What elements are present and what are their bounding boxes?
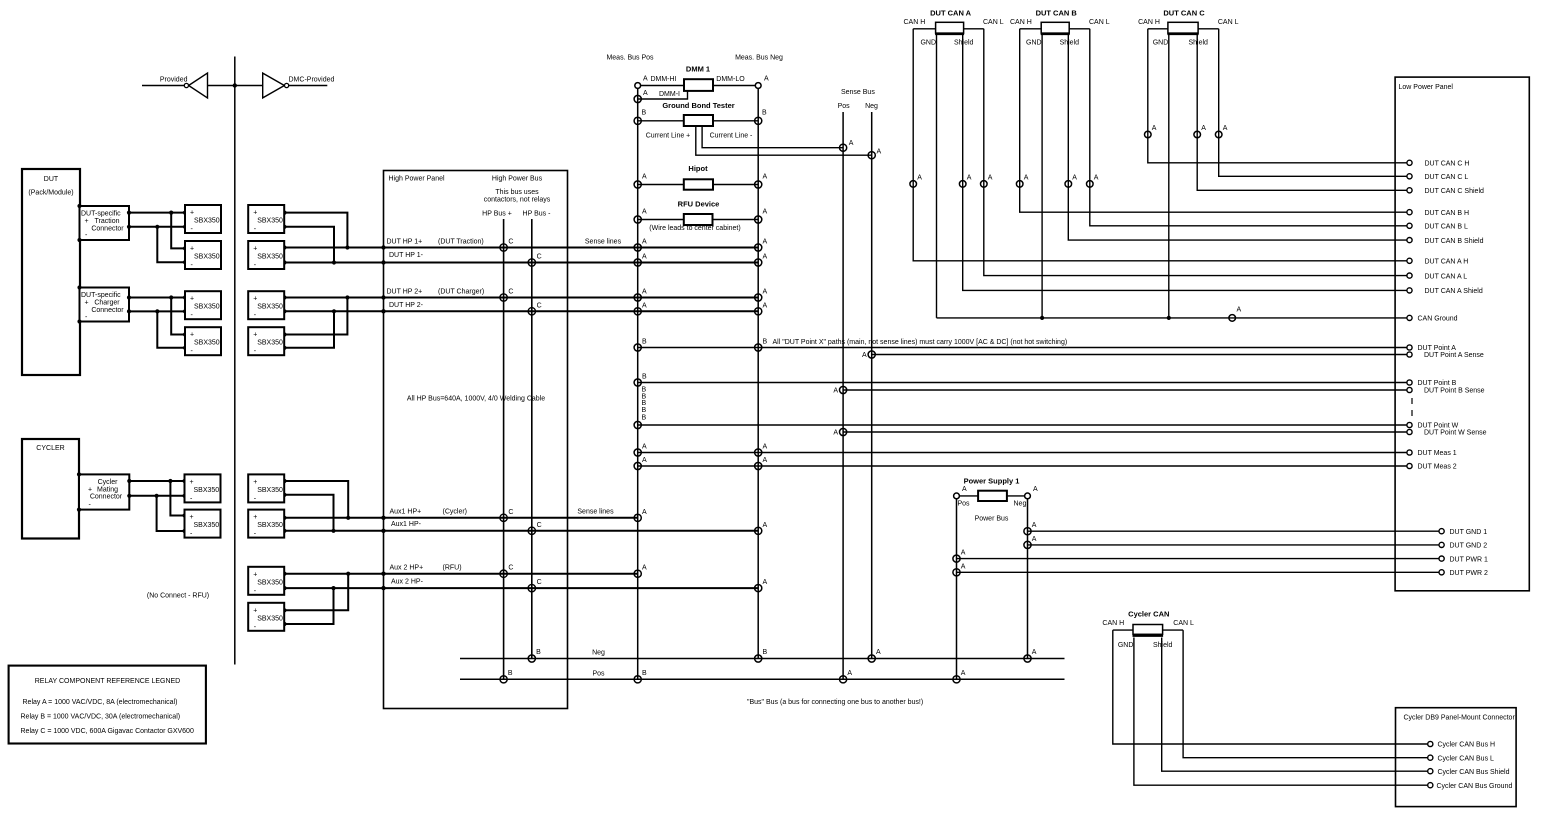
wire DUT CAN C L — [1219, 29, 1410, 177]
svg-text:B: B — [762, 110, 767, 117]
svg-text:A: A — [642, 209, 647, 216]
wire DUT Point W — [638, 424, 1410, 426]
svg-text:DUT Point B: DUT Point B — [1418, 380, 1457, 387]
svg-text:Mating: Mating — [97, 486, 118, 493]
relay on Meas Pos — [634, 259, 641, 266]
junction at High Power Panel edge — [381, 586, 385, 590]
svg-text:C: C — [537, 522, 542, 529]
junction — [127, 295, 131, 299]
svg-text:CAN L: CAN L — [1173, 620, 1194, 627]
svg-text:Meas. Bus Pos: Meas. Bus Pos — [606, 55, 654, 62]
svg-text:A: A — [877, 148, 882, 155]
wire SBX B8+ elbow up to Aux 2 HP+ — [285, 574, 349, 611]
svg-text:(DUT Charger): (DUT Charger) — [438, 289, 484, 296]
svg-text:Provided: Provided — [160, 77, 188, 84]
terminal DUT CAN B Shield — [1407, 238, 1412, 243]
svg-text:A: A — [967, 175, 972, 182]
svg-text:DUT CAN B H: DUT CAN B H — [1425, 210, 1470, 217]
junction — [282, 295, 286, 299]
contactor C — [528, 584, 535, 591]
wire J2+ to SBX A3 — [129, 297, 185, 299]
svg-text:A: A — [642, 509, 647, 516]
svg-text:DMC-Provided: DMC-Provided — [289, 77, 335, 84]
wire CAN H stub — [913, 28, 935, 30]
svg-text:SBX350: SBX350 — [257, 218, 283, 225]
relay A on Sense Pos current line — [840, 144, 847, 151]
svg-text:A: A — [642, 289, 647, 296]
junction — [168, 479, 172, 483]
svg-text:A: A — [642, 457, 647, 464]
svg-text:A: A — [988, 175, 993, 182]
svg-text:Cycler CAN Bus H: Cycler CAN Bus H — [1438, 742, 1496, 749]
svg-text:SBX350: SBX350 — [257, 615, 283, 622]
terminal DUT Point B Sense — [1407, 387, 1412, 392]
terminal DUT CAN C L — [1407, 174, 1412, 179]
svg-text:DUT CAN B: DUT CAN B — [1036, 9, 1078, 18]
Cycler CAN thick base line — [1133, 635, 1164, 637]
terminal Cycler CAN Bus Shield — [1428, 769, 1433, 774]
svg-text:Sense lines: Sense lines — [577, 509, 614, 516]
relay A RFU left — [634, 216, 641, 223]
wire branch down to SBX A6- — [157, 496, 185, 531]
wire RFU right — [713, 219, 758, 221]
buffer U1 Provided (left-pointing with bubble) — [189, 73, 208, 98]
SBX350 connector B3 — [248, 291, 284, 319]
svg-text:DUT Meas 1: DUT Meas 1 — [1418, 450, 1457, 457]
terminal DUT Point W Sense — [1407, 429, 1412, 434]
relay A on CAN A L — [981, 181, 988, 188]
junction — [282, 493, 286, 497]
svg-text:C: C — [537, 302, 542, 309]
terminal DUT CAN B L — [1407, 223, 1412, 228]
svg-text:GND: GND — [920, 39, 936, 46]
svg-text:+: + — [253, 246, 257, 253]
contactor C — [500, 294, 507, 301]
svg-text:C: C — [508, 239, 513, 246]
svg-text:Connector: Connector — [91, 307, 124, 314]
contactor C — [528, 308, 535, 315]
svg-text:C: C — [537, 254, 542, 261]
SBX350 connector A2 — [185, 241, 221, 269]
svg-text:Cycler DB9 Panel-Mount Connect: Cycler DB9 Panel-Mount Connector — [1404, 715, 1516, 722]
svg-text:+: + — [253, 571, 257, 578]
junction — [182, 494, 186, 498]
svg-text:A: A — [1032, 522, 1037, 529]
relay A on CAN B L — [1087, 181, 1094, 188]
svg-text:DMM 1: DMM 1 — [686, 65, 710, 74]
junction — [282, 211, 286, 215]
junction at High Power Panel edge — [381, 529, 385, 533]
wire SBX B5+ elbow to Aux1 HP+ — [285, 481, 349, 518]
wire J1+ to SBX A1 — [129, 212, 185, 214]
svg-text:B: B — [536, 649, 541, 656]
junction — [331, 529, 335, 533]
DUT-specific Charger Connector J2 — [80, 288, 130, 322]
terminal Meas Bus Neg top — [755, 83, 761, 89]
relay B DUT Point W — [634, 421, 641, 428]
wire Aux1 HP- main — [285, 530, 759, 532]
junction — [331, 586, 335, 590]
wire DUT CAN A GND — [936, 34, 938, 318]
SBX350 connector B8 — [248, 603, 284, 631]
junction — [282, 260, 286, 264]
wire DUT CAN A Shield — [963, 34, 1410, 290]
relay A on CAN C H — [1145, 131, 1152, 138]
relay A DUT Meas 1 at Meas Neg — [755, 449, 762, 456]
wire DUT Point A Sense — [872, 354, 1410, 356]
DUT box — [22, 169, 80, 375]
relay A DUT Point A Sense — [868, 351, 875, 358]
svg-text:+: + — [88, 486, 92, 493]
svg-text:A: A — [1201, 125, 1206, 132]
wire buffer U2 output — [289, 85, 328, 87]
Ground Bond Tester box — [684, 115, 713, 126]
svg-text:DUT CAN A Shield: DUT CAN A Shield — [1425, 288, 1483, 295]
relay A DUT GND 2 — [1024, 541, 1031, 548]
Meas Bus Neg vertical — [757, 86, 759, 659]
svg-text:RELAY COMPONENT REFERENCE LEGN: RELAY COMPONENT REFERENCE LEGNED — [35, 678, 180, 685]
Cycler DB9 Panel-Mount Connector box — [1396, 708, 1517, 807]
wire Cycler CAN H — [1113, 629, 1133, 631]
svg-text:B: B — [642, 670, 647, 677]
svg-text:RFU Device: RFU Device — [678, 200, 720, 209]
wire DUT PWR 1 — [957, 558, 1442, 560]
relay B DUT Point A at Meas Neg — [755, 344, 762, 351]
svg-text:DUT CAN C: DUT CAN C — [1163, 9, 1205, 18]
svg-text:A: A — [833, 388, 838, 395]
svg-text:DMM-I: DMM-I — [659, 91, 680, 98]
contactor C — [528, 259, 535, 266]
terminal DUT CAN A Shield — [1407, 288, 1412, 293]
svg-text:CAN H: CAN H — [904, 19, 926, 26]
svg-text:+: + — [253, 479, 257, 486]
relay A Hipot left — [634, 181, 641, 188]
svg-text:GND: GND — [1118, 642, 1134, 649]
svg-text:CAN Ground: CAN Ground — [1418, 316, 1458, 323]
wire Hipot right — [713, 184, 758, 186]
svg-text:A: A — [642, 565, 647, 572]
Low Power Panel box — [1395, 77, 1529, 591]
junction at High Power Panel edge — [381, 245, 385, 249]
junction — [332, 309, 336, 313]
svg-text:A: A — [1024, 175, 1029, 182]
svg-text:SBX350: SBX350 — [194, 254, 220, 261]
junction CAN C GND — [1167, 316, 1171, 320]
svg-text:This bus uses: This bus uses — [495, 189, 539, 196]
svg-text:Cycler: Cycler — [98, 479, 119, 486]
junction at High Power Panel edge — [381, 260, 385, 264]
svg-text:+: + — [85, 300, 89, 307]
relay A DUT Meas 2 at Meas Neg — [755, 462, 762, 469]
SBX350 connector B4 — [248, 327, 284, 355]
svg-text:Power Supply 1: Power Supply 1 — [964, 477, 1020, 486]
wire CAN L stub — [964, 28, 984, 30]
svg-text:A: A — [764, 76, 769, 83]
relay on Meas Neg — [755, 244, 762, 251]
svg-text:+: + — [253, 607, 257, 614]
SBX350 connector B7 — [248, 567, 284, 595]
relay A on Sense Neg current line — [868, 152, 875, 159]
terminal Cycler CAN Bus L — [1428, 755, 1433, 760]
relay legend box — [9, 666, 206, 744]
svg-text:B: B — [642, 339, 647, 346]
buffer U2 DMC-Provided (right-pointing with bubble) — [263, 73, 285, 98]
relay A DUT Point B Sense — [840, 386, 847, 393]
junction — [183, 260, 187, 264]
svg-text:B: B — [642, 110, 647, 117]
svg-text:DUT Point A Sense: DUT Point A Sense — [1424, 352, 1484, 359]
svg-text:DUT HP 1-: DUT HP 1- — [389, 252, 424, 259]
svg-text:A: A — [763, 579, 768, 586]
junction — [346, 516, 350, 520]
svg-text:A: A — [763, 174, 768, 181]
svg-text:GND: GND — [1153, 39, 1169, 46]
wire J3+ to SBX A5 — [129, 480, 184, 482]
wire Cycler CAN L — [1163, 629, 1184, 631]
wire Current Line - elbow to Sense Pos — [702, 126, 843, 148]
wire DUT Meas 2 — [638, 465, 1410, 467]
svg-text:All HP Bus=640A, 1000V, 4/0 We: All HP Bus=640A, 1000V, 4/0 Welding Cabl… — [407, 396, 545, 403]
junction — [282, 479, 286, 483]
svg-text:+: + — [190, 296, 194, 303]
svg-text:DUT CAN C L: DUT CAN C L — [1425, 174, 1469, 181]
svg-text:A: A — [849, 140, 854, 147]
svg-text:Cycler CAN Bus Shield: Cycler CAN Bus Shield — [1438, 769, 1510, 776]
wire DUT HP 2- main — [285, 310, 759, 312]
svg-text:Aux 2 HP-: Aux 2 HP- — [391, 579, 424, 586]
svg-text:(Wire leads to center cabinet): (Wire leads to center cabinet) — [649, 225, 740, 232]
svg-text:DUT GND 1: DUT GND 1 — [1450, 529, 1488, 536]
svg-text:+: + — [190, 332, 194, 339]
wire DUT HP 1+ main — [285, 247, 759, 249]
svg-text:CAN H: CAN H — [1010, 19, 1032, 26]
terminal PS Pos — [954, 493, 960, 499]
wire SBX B1+ elbow to DUT HP 1+ — [285, 213, 348, 248]
svg-text:A: A — [763, 457, 768, 464]
svg-text:A: A — [763, 254, 768, 261]
svg-text:A: A — [1032, 536, 1037, 543]
wire DUT PWR 2 — [957, 571, 1442, 573]
terminal DUT CAN B H — [1407, 210, 1412, 215]
wire DUT HP 1- main — [285, 262, 759, 264]
svg-text:A: A — [763, 289, 768, 296]
svg-text:+: + — [253, 296, 257, 303]
wire RFU left — [638, 219, 684, 221]
junction — [282, 622, 286, 626]
relay A DUT GND 1 — [1024, 528, 1031, 535]
svg-text:+: + — [85, 218, 89, 225]
DUT CAN C transceiver box — [1168, 22, 1198, 33]
svg-text:SBX350: SBX350 — [257, 487, 283, 494]
wire DMM-LO — [713, 85, 758, 87]
terminal Meas Bus Pos top — [635, 83, 641, 89]
wire DUT Point W Sense — [843, 431, 1409, 433]
junction — [127, 309, 131, 313]
relay A on DMM-I — [634, 95, 641, 102]
svg-text:Sense Bus: Sense Bus — [841, 89, 875, 96]
junction — [332, 260, 336, 264]
relay A RFU right — [755, 216, 762, 223]
svg-text:Connector: Connector — [91, 226, 124, 233]
relay A Aux1 HP- end — [755, 527, 762, 534]
svg-text:+: + — [190, 479, 194, 486]
svg-text:A: A — [961, 670, 966, 677]
terminal Cycler CAN Bus H — [1428, 741, 1433, 746]
svg-text:"Bus" Bus (a bus for connectin: "Bus" Bus (a bus for connecting one bus … — [747, 699, 923, 706]
svg-text:Shield: Shield — [1060, 39, 1080, 46]
svg-text:+: + — [190, 514, 194, 521]
terminal DUT Point W — [1407, 422, 1412, 427]
wire DUT CAN B L — [1090, 29, 1410, 226]
svg-text:DUT-specific: DUT-specific — [81, 292, 121, 299]
junction — [127, 494, 131, 498]
terminal DUT Point A Sense — [1407, 352, 1412, 357]
wire DUT Point B — [638, 382, 1410, 384]
junction — [183, 346, 187, 350]
svg-text:Shield: Shield — [1188, 39, 1208, 46]
terminal DUT CAN C Shield — [1407, 188, 1412, 193]
svg-text:A: A — [763, 209, 768, 216]
relay on Meas Neg — [755, 308, 762, 315]
svg-text:SBX350: SBX350 — [194, 340, 220, 347]
junction — [183, 309, 187, 313]
SBX350 connector A5 — [185, 474, 221, 502]
junction — [182, 479, 186, 483]
junction CAN B GND — [1040, 316, 1044, 320]
svg-text:A: A — [962, 486, 967, 493]
svg-text:DUT CAN B Shield: DUT CAN B Shield — [1425, 238, 1484, 245]
vertical divider line — [234, 57, 236, 665]
contactor C — [500, 514, 507, 521]
svg-text:DUT CAN C H: DUT CAN C H — [1425, 161, 1470, 168]
svg-text:DUT Point W Sense: DUT Point W Sense — [1424, 430, 1487, 437]
svg-text:Traction: Traction — [94, 218, 119, 225]
wire PS pos terminal to box — [957, 495, 979, 497]
wire CAN Ground — [937, 317, 1410, 319]
terminal CAN Ground — [1407, 315, 1412, 320]
DMM 1 box — [684, 79, 713, 91]
svg-text:Cycler CAN Bus L: Cycler CAN Bus L — [1438, 755, 1495, 762]
junction dots J1 corners — [77, 204, 81, 208]
relay A on Pos bus — [840, 676, 847, 683]
HP Bus + vertical — [503, 219, 505, 679]
svg-text:(RFU): (RFU) — [443, 565, 462, 572]
SBX350 connector B6 — [248, 510, 284, 538]
Meas Bus Pos vertical — [637, 86, 639, 680]
wire Pos bus — [460, 678, 1065, 680]
svg-text:DUT CAN A: DUT CAN A — [930, 9, 972, 18]
svg-text:+: + — [253, 210, 257, 217]
wire SBX B4+ elbow up to DUT HP 2+ — [285, 298, 348, 335]
svg-text:A: A — [876, 649, 881, 656]
svg-text:A: A — [763, 239, 768, 246]
svg-text:SBX350: SBX350 — [257, 340, 283, 347]
svg-text:Neg: Neg — [1014, 501, 1027, 508]
junction dots J2 corners — [77, 285, 81, 289]
contactor C — [528, 527, 535, 534]
wire branch down to SBX A2+ — [171, 213, 185, 249]
Cycler CAN transceiver box — [1133, 625, 1163, 635]
wire DUT CAN A L — [984, 29, 1410, 276]
wire Neg bus — [460, 658, 1065, 660]
wire SBX B1- elbow to DUT HP 1- — [285, 227, 335, 263]
svg-text:DUT HP 2+: DUT HP 2+ — [387, 289, 423, 296]
wire Current Line + elbow to Sense Neg — [696, 126, 872, 155]
terminal DUT Point A — [1407, 345, 1412, 350]
svg-text:Aux1 HP+: Aux1 HP+ — [390, 509, 422, 516]
junction — [282, 309, 286, 313]
wire DUT Point A — [638, 347, 1410, 349]
svg-text:B: B — [763, 339, 768, 346]
wire GBT left — [638, 120, 684, 122]
CYCLER box — [22, 439, 79, 539]
junction — [183, 211, 187, 215]
wire GBT right — [713, 120, 758, 122]
relay B DUT Point A at Meas Pos — [634, 344, 641, 351]
svg-text:A: A — [862, 352, 867, 359]
junction dots J3 corners — [77, 472, 81, 476]
svg-text:Neg: Neg — [865, 103, 878, 110]
relay A Hipot right — [755, 181, 762, 188]
svg-text:A: A — [642, 302, 647, 309]
SBX350 connector A1 — [185, 205, 221, 233]
wire branch down to SBX A2- — [157, 227, 185, 262]
svg-text:DUT Point B Sense: DUT Point B Sense — [1424, 388, 1485, 395]
svg-text:DUT Point A: DUT Point A — [1418, 345, 1457, 352]
svg-text:Relay C = 1000 VDC, 600A Gigav: Relay C = 1000 VDC, 600A Gigavac Contact… — [21, 728, 194, 735]
svg-text:B: B — [642, 400, 647, 407]
svg-text:DUT HP 1+: DUT HP 1+ — [387, 239, 423, 246]
wire SBX B8- elbow up to Aux 2 HP- — [285, 588, 334, 624]
junction — [155, 309, 159, 313]
PS Pos vertical — [956, 496, 958, 679]
wire SBX B4- elbow up to DUT HP 2- — [285, 311, 335, 348]
relay on Meas Pos — [634, 308, 641, 315]
wire J3- to SBX A5- — [129, 495, 184, 497]
svg-text:Cycler CAN: Cycler CAN — [1128, 610, 1169, 619]
svg-text:A: A — [763, 302, 768, 309]
svg-text:A: A — [1032, 649, 1037, 656]
junction — [169, 211, 173, 215]
svg-text:Shield: Shield — [954, 39, 974, 46]
DUT-specific Traction Connector J1 — [80, 206, 130, 240]
svg-text:All "DUT Point X" paths (main,: All "DUT Point X" paths (main, not sense… — [773, 339, 1068, 346]
High Power Panel box — [384, 171, 568, 709]
wire Cycler CAN Shield — [1162, 638, 1431, 772]
Hipot box — [684, 179, 713, 189]
svg-text:+: + — [190, 246, 194, 253]
svg-text:Sense lines: Sense lines — [585, 239, 622, 246]
svg-text:Ground Bond Tester: Ground Bond Tester — [662, 101, 734, 110]
svg-text:Neg: Neg — [592, 650, 605, 657]
junction — [282, 516, 286, 520]
wire branch down to SBX A4- — [157, 311, 185, 347]
svg-text:DUT Point W: DUT Point W — [1418, 423, 1459, 430]
DUT CAN A thick base line — [935, 33, 964, 35]
SBX350 connector A3 — [185, 291, 221, 319]
svg-text:DMM-HI: DMM-HI — [650, 76, 676, 83]
svg-text:Shield: Shield — [1153, 642, 1173, 649]
relay A on CAN Ground — [1229, 315, 1236, 322]
svg-text:A: A — [917, 175, 922, 182]
junction — [183, 295, 187, 299]
relay B DUT Point B — [634, 379, 641, 386]
svg-text:Power Bus: Power Bus — [975, 516, 1009, 523]
terminal DUT GND 1 — [1439, 529, 1444, 534]
junction — [282, 586, 286, 590]
svg-text:Relay B = 1000 VAC/VDC, 30A (e: Relay B = 1000 VAC/VDC, 30A (electromech… — [21, 714, 181, 721]
svg-text:DUT CAN A H: DUT CAN A H — [1425, 259, 1469, 266]
